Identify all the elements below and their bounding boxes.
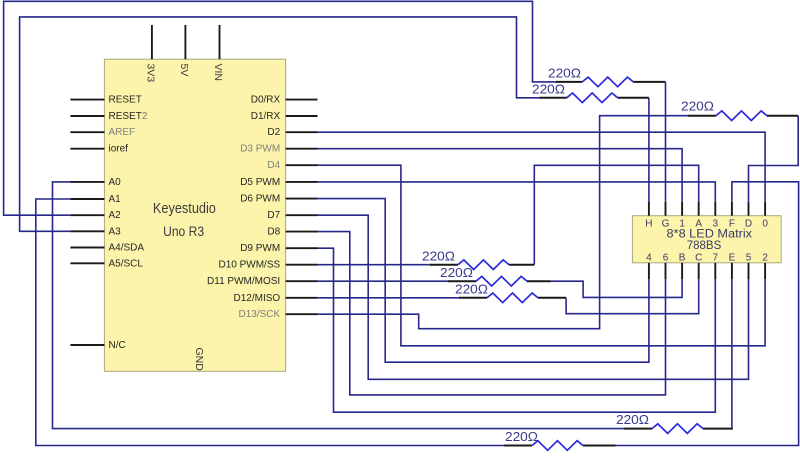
wire D2 to matrix pin 0 bbox=[318, 132, 766, 202]
svg-text:220Ω: 220Ω bbox=[505, 429, 538, 444]
svg-text:D11 PWM/MOSI: D11 PWM/MOSI bbox=[207, 276, 280, 287]
resistor R8 220&#937; lead left bbox=[504, 445, 532, 447]
svg-text:D12/MISO: D12/MISO bbox=[234, 293, 281, 304]
svg-text:D9 PWM: D9 PWM bbox=[240, 243, 280, 254]
U2 top pin A stub bbox=[698, 202, 700, 216]
wire R8 to matrix pin F bbox=[616, 182, 799, 446]
U1 pin D2 (right) stub bbox=[286, 131, 318, 133]
U2 top pin D stub bbox=[748, 202, 750, 216]
resistor R8 220&#937; lead right bbox=[583, 445, 616, 447]
U2 bottom pin 5 stub bbox=[748, 263, 750, 280]
svg-text:B: B bbox=[679, 252, 686, 263]
svg-text:220Ω: 220Ω bbox=[422, 248, 455, 263]
svg-text:A: A bbox=[695, 218, 702, 229]
U1 pin RESET (left) stub bbox=[70, 99, 104, 101]
U2 bottom pin 6 stub bbox=[665, 263, 667, 280]
U2 bottom pin 4 stub bbox=[648, 263, 650, 280]
resistor R2 220&#937; lead left bbox=[540, 97, 567, 99]
resistor R6 220&#937; lead right bbox=[538, 297, 566, 299]
resistor R5 220&#937; lead left bbox=[448, 280, 476, 282]
U2 bottom pin C stub bbox=[698, 263, 700, 280]
resistor R7 220&#937; lead left bbox=[624, 428, 652, 430]
U1 pin A0 (left) stub bbox=[70, 181, 104, 183]
svg-text:F: F bbox=[729, 218, 735, 229]
resistor R3 220&#937; lead right bbox=[767, 115, 798, 117]
U2 top pin F stub bbox=[731, 202, 733, 216]
U1 pin D11 (right) stub bbox=[286, 280, 318, 282]
svg-text:788BS: 788BS bbox=[687, 238, 722, 252]
resistor R1 220&#937; lead left bbox=[556, 81, 582, 83]
svg-text:G: G bbox=[662, 218, 670, 229]
U1 pin D0 (right) stub bbox=[286, 99, 318, 101]
U1 pin 5V (top) stub bbox=[184, 25, 186, 59]
wire D8 to matrix pin 6 bbox=[318, 232, 666, 395]
U2 top pin 1 stub bbox=[681, 202, 683, 216]
svg-text:D10 PWM/SS: D10 PWM/SS bbox=[219, 260, 281, 271]
svg-text:AREF: AREF bbox=[109, 127, 136, 138]
svg-text:RESET2: RESET2 bbox=[109, 111, 148, 122]
svg-text:C: C bbox=[695, 252, 702, 263]
svg-text:3V3: 3V3 bbox=[144, 64, 156, 83]
svg-text:A0: A0 bbox=[109, 177, 122, 188]
svg-text:220Ω: 220Ω bbox=[548, 65, 581, 80]
svg-text:D13/SCK: D13/SCK bbox=[239, 309, 281, 320]
svg-text:E: E bbox=[729, 252, 736, 263]
U1 pin VIN (top) stub bbox=[219, 25, 221, 59]
wire D7 to matrix pin 5 bbox=[318, 215, 749, 379]
U1 pin RESET2 (left) stub bbox=[70, 115, 104, 117]
resistor R1 220&#937; zigzag bbox=[582, 77, 633, 87]
svg-text:D4: D4 bbox=[267, 160, 280, 171]
U1 pin D10 (right) stub bbox=[286, 264, 318, 266]
U1 pin D5 (right) stub bbox=[286, 181, 318, 183]
wire D10 to resistor R4 bbox=[318, 264, 432, 266]
svg-text:220Ω: 220Ω bbox=[616, 412, 649, 427]
U2 top pin 3 stub bbox=[714, 202, 716, 216]
U1 pin A1 (left) stub bbox=[70, 198, 104, 200]
wire D12 to resistor R6 bbox=[318, 297, 460, 299]
resistor R4 220&#937; zigzag bbox=[458, 260, 509, 270]
wire D13 to resistor R3 bbox=[318, 116, 690, 329]
svg-text:A3: A3 bbox=[109, 226, 122, 237]
U1 pin D7 (right) stub bbox=[286, 214, 318, 216]
svg-text:GND: GND bbox=[193, 348, 205, 372]
svg-text:A5/SCL: A5/SCL bbox=[109, 258, 144, 269]
wire R2 to matrix pin H bbox=[648, 98, 650, 202]
svg-text:D5 PWM: D5 PWM bbox=[240, 177, 280, 188]
svg-text:220Ω: 220Ω bbox=[681, 99, 714, 114]
wire R4 to matrix pin A bbox=[534, 165, 698, 264]
svg-text:0: 0 bbox=[762, 218, 768, 229]
svg-text:VIN: VIN bbox=[212, 64, 224, 82]
U2 bottom pin E stub bbox=[731, 263, 733, 280]
svg-text:D6 PWM: D6 PWM bbox=[240, 194, 280, 205]
svg-text:4: 4 bbox=[646, 252, 652, 263]
wire D3 to matrix pin 1 bbox=[318, 149, 683, 202]
svg-text:3: 3 bbox=[713, 218, 719, 229]
wire D4 to matrix pin 2 bbox=[318, 165, 766, 346]
resistor R7 220&#937; zigzag bbox=[652, 424, 703, 434]
svg-text:5V: 5V bbox=[178, 64, 190, 77]
U1 pin 3V3 (top) stub bbox=[151, 25, 153, 59]
resistor R4 220&#937; lead right bbox=[509, 264, 534, 266]
U1 pin A3 (left) stub bbox=[70, 230, 104, 232]
resistor R1 220&#937; lead right bbox=[633, 81, 665, 83]
wire R1 to matrix pin G bbox=[665, 82, 667, 202]
U1 pin D13 (right) stub bbox=[286, 313, 318, 315]
U1 pin D3 (right) stub bbox=[286, 148, 318, 150]
svg-text:220Ω: 220Ω bbox=[440, 265, 473, 280]
U1 pin D8 (right) stub bbox=[286, 231, 318, 233]
U1 pin D1 (right) stub bbox=[286, 115, 318, 117]
svg-text:D3 PWM: D3 PWM bbox=[240, 144, 280, 155]
svg-text:H: H bbox=[645, 218, 652, 229]
wire A1 to resistor R8 bbox=[36, 199, 505, 446]
U1 pin A4 (left) stub bbox=[70, 247, 104, 249]
U2 bottom pin 7 stub bbox=[714, 263, 716, 280]
wire D11 to resistor R5 bbox=[318, 280, 450, 282]
wire R5 to matrix pin B bbox=[551, 279, 683, 297]
wire D6 to matrix pin 4 bbox=[318, 199, 649, 363]
U2 top pin H stub bbox=[648, 202, 650, 216]
resistor R7 220&#937; lead right bbox=[703, 428, 733, 430]
svg-text:Uno R3: Uno R3 bbox=[163, 223, 204, 239]
svg-text:A1: A1 bbox=[109, 194, 122, 205]
resistor R6 220&#937; lead left bbox=[459, 297, 487, 299]
resistor R2 220&#937; lead right bbox=[618, 97, 649, 99]
svg-text:D7: D7 bbox=[267, 210, 280, 221]
resistor R3 220&#937; zigzag bbox=[716, 111, 767, 121]
wire A0 to resistor R7 bbox=[53, 182, 627, 429]
svg-text:D2: D2 bbox=[267, 127, 280, 138]
resistor R3 220&#937; lead left bbox=[688, 115, 716, 117]
U1 pin D9 (right) stub bbox=[286, 247, 318, 249]
U1 pin D4 (right) stub bbox=[286, 164, 318, 166]
svg-text:N/C: N/C bbox=[109, 340, 126, 351]
U2 bottom pin 2 stub bbox=[764, 263, 766, 280]
wire R6 to matrix pin C bbox=[566, 279, 699, 313]
svg-text:A2: A2 bbox=[109, 210, 122, 221]
U1 pin D12 (right) stub bbox=[286, 297, 318, 299]
U1 pin NC (left) stub bbox=[70, 344, 104, 346]
svg-text:D8: D8 bbox=[267, 227, 280, 238]
U2 bottom pin B stub bbox=[681, 263, 683, 280]
svg-text:Keyestudio: Keyestudio bbox=[153, 200, 216, 217]
resistor R4 220&#937; lead left bbox=[430, 264, 458, 266]
wire R3 to matrix pin D bbox=[749, 116, 799, 202]
resistor R5 220&#937; lead right bbox=[527, 280, 551, 282]
svg-text:A4/SDA: A4/SDA bbox=[109, 243, 145, 254]
U1 pin ioref (left) stub bbox=[70, 148, 104, 150]
U1 pin AREF (left) stub bbox=[70, 131, 104, 133]
wire R7 to matrix pin E bbox=[731, 279, 733, 428]
IC U1 Keyestudio Uno R3 body bbox=[104, 59, 285, 371]
svg-text:5: 5 bbox=[746, 252, 752, 263]
resistor R2 220&#937; zigzag bbox=[567, 93, 618, 103]
svg-text:2: 2 bbox=[762, 252, 768, 263]
svg-text:6: 6 bbox=[663, 252, 669, 263]
U2 top pin 0 stub bbox=[764, 202, 766, 216]
svg-text:D: D bbox=[745, 218, 752, 229]
U1 pin D6 (right) stub bbox=[286, 198, 318, 200]
wire A2 to resistor R1 bbox=[4, 1, 557, 215]
U1 pin A2 (left) stub bbox=[70, 214, 104, 216]
resistor R6 220&#937; zigzag bbox=[487, 293, 538, 303]
U2 top pin G stub bbox=[665, 202, 667, 216]
svg-text:7: 7 bbox=[713, 252, 719, 263]
IC U2 8*8 LED Matrix 788BS body bbox=[632, 216, 781, 263]
wire D9 to matrix pin 7 bbox=[318, 248, 716, 412]
U1 pin A5 (left) stub bbox=[70, 262, 104, 264]
svg-text:1: 1 bbox=[679, 218, 685, 229]
resistor R5 220&#937; zigzag bbox=[476, 276, 527, 286]
wire A3 to resistor R2 bbox=[20, 17, 541, 231]
resistor R8 220&#937; zigzag bbox=[532, 441, 583, 451]
svg-text:D0/RX: D0/RX bbox=[251, 95, 281, 106]
svg-text:220Ω: 220Ω bbox=[532, 81, 565, 96]
svg-text:220Ω: 220Ω bbox=[455, 281, 488, 296]
svg-text:RESET: RESET bbox=[109, 95, 142, 106]
svg-text:ioref: ioref bbox=[109, 144, 129, 155]
svg-text:D1/RX: D1/RX bbox=[251, 111, 281, 122]
wire D5 to matrix pin 3 bbox=[318, 182, 716, 202]
